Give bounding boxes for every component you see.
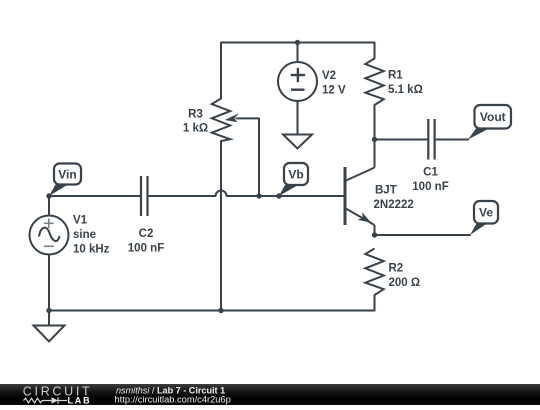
svg-text:10 kHz: 10 kHz bbox=[73, 244, 110, 256]
wire V2 bottom lead to ground bbox=[297, 101, 299, 135]
svg-text:C2: C2 bbox=[139, 228, 154, 240]
svg-text:R3: R3 bbox=[188, 109, 203, 121]
label C2 value bbox=[128, 228, 164, 255]
svg-text:LAB: LAB bbox=[68, 396, 92, 406]
voltage source V2 12V bbox=[278, 62, 317, 101]
wire R1 top lead bbox=[374, 43, 376, 59]
svg-text:100 nF: 100 nF bbox=[412, 181, 448, 193]
node dot Vin bbox=[46, 193, 51, 198]
svg-text:V2: V2 bbox=[322, 70, 336, 82]
node dot Vb junction bbox=[276, 193, 281, 198]
wire R3 top lead to top rail bbox=[221, 43, 375, 99]
flag Vb bbox=[279, 163, 308, 196]
wire V1 top lead bbox=[48, 196, 50, 216]
svg-text:12 V: 12 V bbox=[322, 85, 346, 97]
capacitor C1 bbox=[428, 119, 434, 160]
potentiometer R3 bbox=[212, 99, 230, 142]
flag Ve bbox=[470, 201, 498, 235]
flag Vout bbox=[468, 105, 511, 140]
svg-text:Ve: Ve bbox=[479, 206, 493, 220]
wire C1 to Vout bbox=[436, 139, 468, 141]
label C1 value bbox=[412, 167, 448, 194]
wire collector node to C1 bbox=[375, 139, 428, 141]
svg-text:sine: sine bbox=[73, 229, 96, 241]
node dot top rail V2 bbox=[295, 40, 300, 45]
wire R2 bottom lead to bottom rail bbox=[374, 295, 376, 311]
node dot wiper junction bbox=[256, 193, 261, 198]
wire R1 bottom lead to collector node bbox=[374, 105, 376, 140]
wire V1 bottom lead bbox=[48, 255, 50, 311]
footer logo schematic and LAB bbox=[24, 396, 92, 406]
ground below V1 bbox=[34, 311, 65, 342]
wire V2 top lead bbox=[297, 43, 299, 63]
capacitor C2 bbox=[141, 176, 148, 216]
wire R3 wiper to input wire bbox=[237, 118, 260, 196]
svg-text:5.1 kΩ: 5.1 kΩ bbox=[388, 84, 423, 96]
node dot bottom rail V1 bbox=[46, 308, 51, 313]
footer bar bbox=[0, 384, 540, 405]
svg-text:100 nF: 100 nF bbox=[128, 243, 164, 255]
wire emitter node to Ve bbox=[375, 234, 471, 236]
svg-text:V1: V1 bbox=[73, 215, 88, 227]
node dot emitter bbox=[372, 232, 377, 237]
svg-text:BJT: BJT bbox=[375, 185, 397, 197]
node dot bottom rail R3 bbox=[218, 308, 223, 313]
ground below V2 bbox=[283, 135, 312, 149]
label R2 value bbox=[389, 263, 421, 290]
svg-text:200 Ω: 200 Ω bbox=[389, 277, 421, 289]
transistor Q1 BJT 2N2222 bbox=[345, 140, 375, 236]
label V1 value bbox=[73, 215, 110, 256]
label R3 value bbox=[183, 109, 208, 135]
resistor R2 bbox=[365, 249, 383, 296]
wire input left: Vin node to C2 bbox=[49, 195, 140, 197]
voltage source V1 sine bbox=[30, 216, 69, 255]
potentiometer R3 wiper arrow bbox=[225, 113, 239, 122]
flag Vin bbox=[49, 164, 81, 197]
svg-text:C1: C1 bbox=[423, 167, 438, 179]
svg-text:2N2222: 2N2222 bbox=[374, 199, 414, 211]
resistor R1 bbox=[365, 59, 383, 106]
svg-text:R2: R2 bbox=[389, 263, 404, 275]
label V2 value bbox=[322, 70, 346, 97]
wire bottom rail bbox=[49, 310, 375, 312]
label R1 value bbox=[388, 70, 423, 97]
svg-text:R1: R1 bbox=[388, 70, 403, 82]
svg-text:Vb: Vb bbox=[288, 168, 303, 182]
svg-text:Vout: Vout bbox=[480, 110, 506, 124]
svg-text:Vin: Vin bbox=[58, 168, 76, 182]
svg-text:1 kΩ: 1 kΩ bbox=[183, 123, 208, 135]
node dot collector bbox=[372, 137, 377, 142]
wire C2 to hop to base bbox=[149, 191, 346, 197]
svg-text:http://circuitlab.com/c4r2u6p: http://circuitlab.com/c4r2u6p bbox=[115, 395, 231, 405]
label BJT 2N2222 bbox=[374, 185, 414, 212]
wire R3 bottom lead down through hop to bottom rail bbox=[220, 141, 222, 311]
